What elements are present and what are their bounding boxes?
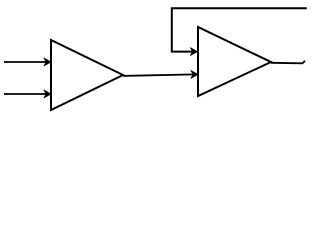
amplifier A1 (triangle) [51, 40, 123, 110]
feedback wire: top run, left drop, arrow into A2 [172, 8, 307, 55]
wire A2 output with hook [271, 61, 305, 64]
wire A1 output to A2 input [123, 71, 198, 79]
amplifier A2 (triangle) [198, 27, 271, 96]
wire input arrow IN1 [4, 58, 51, 66]
wire input arrow IN2 [4, 90, 51, 98]
